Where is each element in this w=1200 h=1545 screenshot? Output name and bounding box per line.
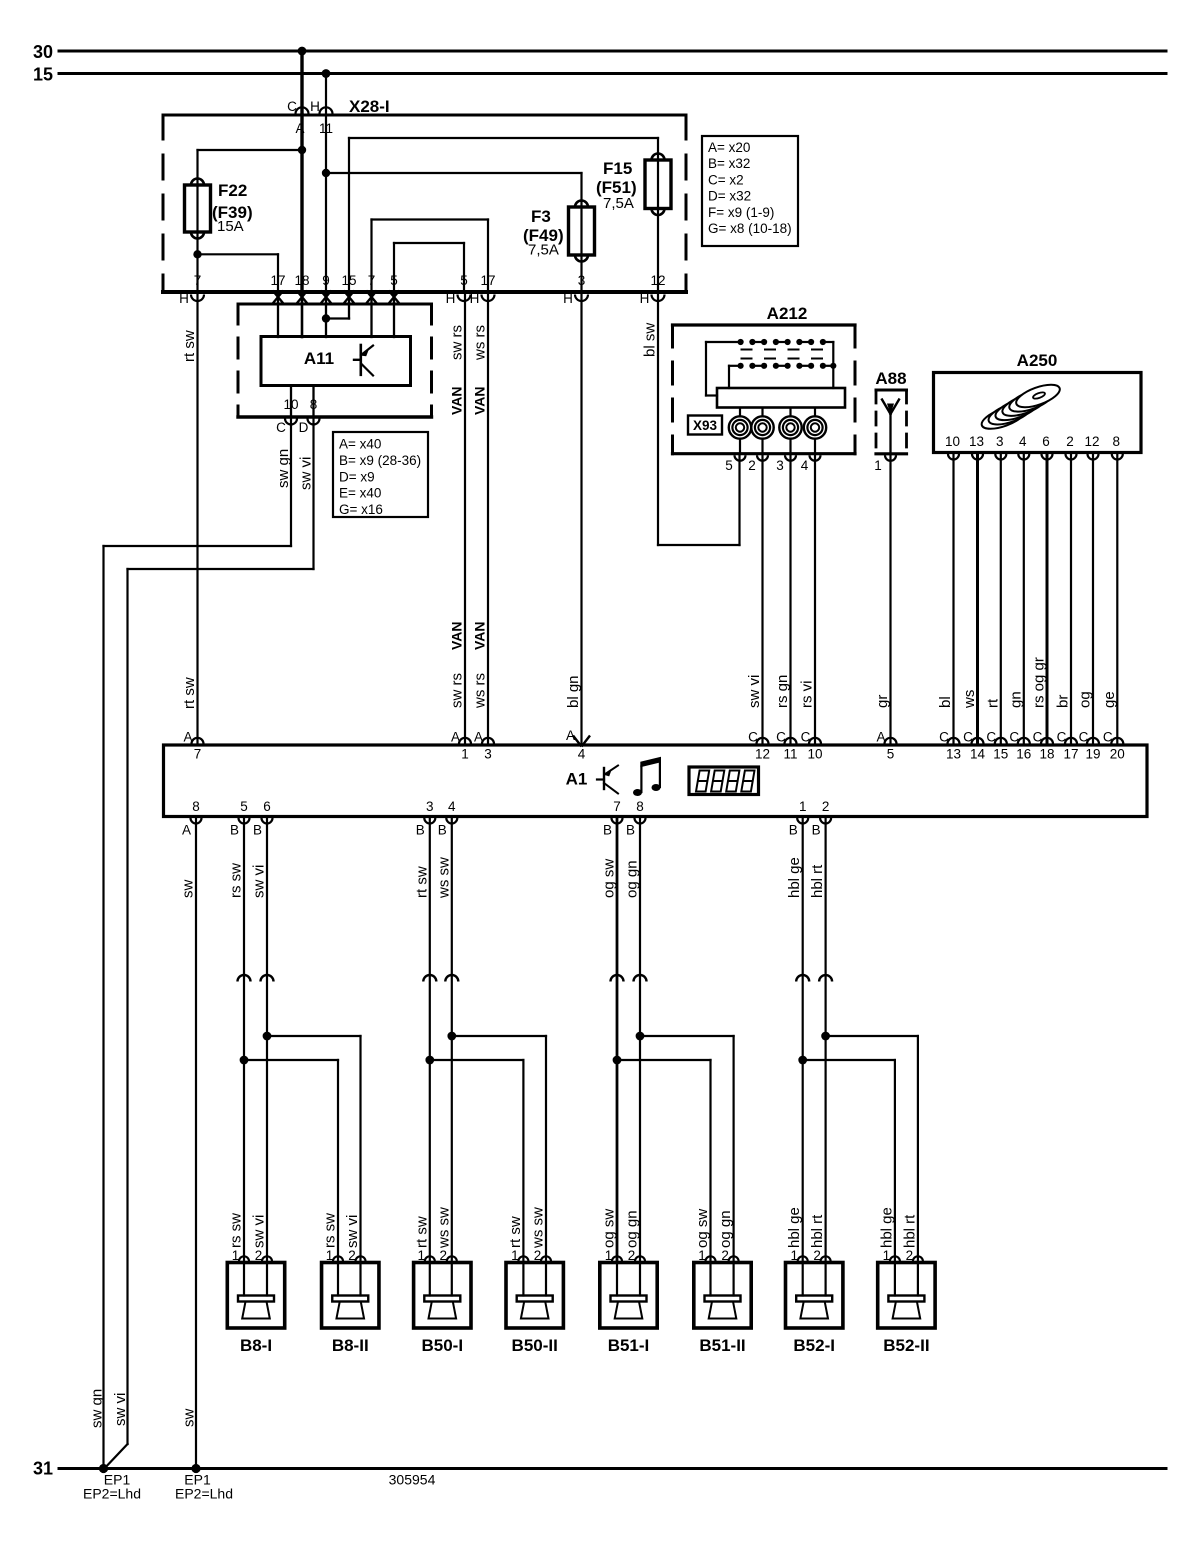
- svg-text:rt sw: rt sw: [181, 677, 198, 709]
- svg-text:8: 8: [1113, 434, 1121, 449]
- svg-text:sw vi: sw vi: [112, 1393, 129, 1426]
- svg-text:11: 11: [783, 747, 797, 762]
- svg-text:hbl rt: hbl rt: [901, 1214, 918, 1248]
- svg-text:5: 5: [887, 747, 895, 762]
- svg-text:4: 4: [578, 747, 586, 762]
- svg-text:15: 15: [33, 65, 53, 85]
- svg-text:gn: gn: [1008, 691, 1025, 708]
- svg-text:VAN: VAN: [472, 386, 488, 415]
- display symbol in A1: [689, 767, 759, 795]
- svg-text:C: C: [748, 730, 758, 745]
- svg-text:20: 20: [1110, 747, 1125, 762]
- wire branch rt sw to B50-II pin1: [430, 1059, 524, 1061]
- wire pin 15 to F15: [349, 137, 658, 139]
- svg-text:G= x8 (10-18): G= x8 (10-18): [708, 221, 792, 236]
- svg-text:17: 17: [480, 273, 495, 288]
- svg-text:EP2=Lhd: EP2=Lhd: [83, 1486, 141, 1502]
- svg-text:ws sw: ws sw: [435, 857, 452, 899]
- A212 internal wire right: [832, 342, 834, 388]
- svg-text:4: 4: [1019, 434, 1027, 449]
- harness pass symbol og sw: [611, 975, 624, 982]
- svg-text:2: 2: [906, 1248, 914, 1263]
- svg-text:A250: A250: [1017, 351, 1058, 370]
- svg-text:og sw: og sw: [601, 859, 618, 898]
- svg-text:15A: 15A: [217, 218, 244, 235]
- pin D connector at A11 bottom: [308, 419, 320, 425]
- node F22 branch: [193, 250, 201, 258]
- radio unit A11 inner box: [261, 337, 411, 386]
- svg-text:1: 1: [326, 1248, 334, 1263]
- wire F22 feed: [198, 149, 303, 151]
- node branch sw vi: [263, 1032, 272, 1041]
- music note symbol in A1: [633, 757, 661, 796]
- harness pass symbol og gn: [634, 975, 647, 982]
- wire bl sw X28-I pin12 to A212 pin5: [657, 292, 659, 545]
- svg-text:sw rs: sw rs: [449, 325, 466, 360]
- node branch rt sw: [425, 1056, 434, 1065]
- svg-text:C: C: [1009, 730, 1019, 745]
- svg-text:15: 15: [341, 273, 356, 288]
- svg-text:2: 2: [721, 1248, 729, 1263]
- svg-text:14: 14: [970, 747, 986, 762]
- svg-text:6: 6: [263, 799, 271, 814]
- svg-text:30: 30: [33, 42, 53, 62]
- wire bl gn X28-I pin3 to A1 pin4: [580, 292, 582, 744]
- pin 18 crossing symbol: [297, 291, 306, 302]
- wire rs sw A1 to B8-I pin1: [243, 818, 245, 1263]
- svg-text:rs sw: rs sw: [228, 863, 245, 898]
- svg-text:rs sw: rs sw: [228, 1213, 245, 1248]
- svg-text:X28-I: X28-I: [349, 97, 390, 116]
- A88 pin 1 connector: [885, 455, 896, 461]
- wire bracket pin 7 to pin 17 (inside X28-I): [372, 218, 489, 220]
- svg-text:B52-I: B52-I: [793, 1336, 835, 1355]
- wire bl A250 pin10 to A1: [952, 454, 954, 745]
- CD player box A250: [934, 373, 1142, 453]
- svg-text:9: 9: [322, 273, 330, 288]
- svg-text:4: 4: [448, 799, 456, 814]
- pin 15 crossing symbol: [344, 291, 353, 302]
- wire ws A250 pin13 to A1: [976, 454, 979, 745]
- bus 30 wire: [59, 50, 1166, 53]
- harness pass symbol rs sw: [238, 975, 251, 982]
- svg-text:B: B: [626, 823, 635, 838]
- node pin9/pin15 junction: [322, 314, 330, 322]
- A212 internal wire left row1: [705, 342, 707, 396]
- wire X28-I pin 17 to A11: [277, 292, 279, 337]
- svg-text:3: 3: [426, 799, 434, 814]
- svg-text:sw vi: sw vi: [746, 675, 763, 708]
- svg-text:10: 10: [945, 434, 960, 449]
- svg-text:12: 12: [1084, 434, 1099, 449]
- wire og sw A1 to B51-I pin1: [616, 818, 619, 1263]
- wire branch og gn to B51-II pin2: [640, 1035, 734, 1037]
- wire branch og sw to B51-II pin1: [617, 1059, 711, 1061]
- wire F3 to pin 3: [580, 255, 582, 292]
- svg-text:C: C: [986, 730, 996, 745]
- pin 5 connector H at X28-I bottom: [458, 295, 471, 302]
- harness pass symbol sw vi: [261, 975, 274, 982]
- wire branch sw vi to B8-II pin2: [267, 1035, 361, 1037]
- svg-text:C: C: [1103, 730, 1113, 745]
- wire X28-I pin 7 to A11: [370, 292, 372, 337]
- wire sw gn from A11 pin 10 to EP1: [290, 417, 292, 546]
- pin 3 connector H at X28-I bottom: [575, 295, 588, 302]
- svg-text:10: 10: [283, 397, 298, 412]
- wire gr A88 pin1 to A1 pin5: [889, 456, 891, 745]
- svg-text:hbl ge: hbl ge: [786, 1207, 803, 1248]
- node on bus 15: [322, 69, 331, 78]
- svg-text:hbl ge: hbl ge: [878, 1207, 895, 1248]
- svg-text:C: C: [1033, 730, 1043, 745]
- svg-text:A212: A212: [767, 304, 808, 323]
- wire og A250 pin12 to A1: [1092, 454, 1094, 745]
- svg-text:A88: A88: [875, 369, 906, 388]
- svg-text:18: 18: [294, 273, 309, 288]
- svg-text:bl sw: bl sw: [642, 323, 659, 357]
- svg-text:3: 3: [776, 458, 784, 473]
- svg-text:A: A: [474, 730, 483, 745]
- svg-text:rt sw: rt sw: [181, 330, 198, 362]
- svg-text:2: 2: [813, 1248, 821, 1263]
- svg-text:2: 2: [440, 1248, 448, 1263]
- connector X93 label box: [688, 416, 722, 435]
- svg-text:A: A: [182, 823, 191, 838]
- A11 pin 10 wire: [290, 386, 292, 418]
- svg-text:ws: ws: [961, 690, 978, 709]
- wire rt sw X28-I pin7 to A1 pin7: [196, 292, 198, 745]
- A1 bottom pin connectors: [182, 799, 202, 838]
- svg-text:13: 13: [946, 747, 961, 762]
- wire gn A250 pin4 to A1: [1023, 454, 1025, 745]
- svg-text:A= x20: A= x20: [708, 140, 750, 155]
- pin 17 crossing symbol: [273, 291, 282, 302]
- wire sw vi from A11 pin 8 to EP1: [312, 417, 314, 569]
- svg-text:rs vi: rs vi: [799, 681, 816, 709]
- fuse F3 (F49) 7,5A: [580, 207, 582, 255]
- wire hbl ge A1 to B52-I pin1: [802, 818, 804, 1263]
- wire X28-I pin 9 to A11: [325, 292, 327, 337]
- svg-text:15: 15: [993, 747, 1008, 762]
- pin 12 connector H at X28-I bottom: [652, 295, 665, 302]
- svg-text:B: B: [789, 823, 798, 838]
- svg-text:hbl ge: hbl ge: [786, 857, 803, 898]
- svg-text:VAN: VAN: [449, 386, 465, 415]
- wire rs og gr A250 pin6 to A1: [1046, 454, 1049, 745]
- wire ws sw A1 to B50-I pin2: [451, 818, 453, 1263]
- svg-text:2: 2: [255, 1248, 263, 1263]
- wire branch hbl ge to B52-II pin1: [803, 1059, 895, 1061]
- svg-text:1: 1: [605, 1248, 613, 1263]
- svg-text:6: 6: [1042, 434, 1050, 449]
- svg-text:A= x40: A= x40: [339, 437, 381, 452]
- wire sw vi A1 to B8-I pin2: [266, 818, 268, 1263]
- svg-text:1: 1: [883, 1248, 891, 1263]
- svg-text:5: 5: [725, 458, 733, 473]
- svg-text:sw vi: sw vi: [344, 1215, 361, 1248]
- svg-text:2: 2: [534, 1248, 542, 1263]
- node branch rs sw: [240, 1056, 249, 1065]
- svg-text:sw gn: sw gn: [89, 1389, 106, 1428]
- loudspeaker B51-I: [600, 1256, 657, 1328]
- svg-text:8: 8: [192, 799, 200, 814]
- bus 31 wire: [59, 1467, 1166, 1470]
- antenna box A88 (dashed): [876, 390, 907, 454]
- svg-text:7: 7: [194, 273, 202, 288]
- legend box connector key: [702, 136, 798, 246]
- svg-text:F3: F3: [531, 207, 551, 226]
- svg-text:F15: F15: [603, 159, 632, 178]
- svg-text:E= x40: E= x40: [339, 486, 381, 501]
- svg-text:B= x32: B= x32: [708, 156, 750, 171]
- node branch og gn: [636, 1032, 645, 1041]
- svg-text:sw vi: sw vi: [251, 865, 268, 898]
- transistor symbol in A1: [597, 766, 618, 794]
- svg-text:C= x2: C= x2: [708, 172, 744, 187]
- wire sw vi A212 pin2 to A1 pin12: [761, 456, 763, 745]
- harness pass symbol rt sw: [423, 975, 436, 982]
- svg-text:1: 1: [790, 1248, 798, 1263]
- svg-text:C: C: [776, 730, 786, 745]
- wire branch hbl rt to B52-II pin2: [826, 1035, 918, 1037]
- svg-text:C: C: [287, 99, 297, 114]
- svg-text:A: A: [451, 730, 460, 745]
- svg-text:D: D: [299, 420, 309, 435]
- ground node EP1 left: [99, 1464, 108, 1473]
- svg-text:H: H: [446, 291, 456, 306]
- loudspeaker B51-II: [694, 1256, 751, 1328]
- svg-text:ge: ge: [1101, 691, 1118, 708]
- A1 pin 4 arrow connector: [573, 736, 582, 747]
- svg-text:2: 2: [628, 1248, 636, 1263]
- svg-text:sw: sw: [181, 1409, 198, 1428]
- CD stack icon: [979, 380, 1063, 433]
- wire og gn A1 to B51-I pin2: [639, 818, 641, 1263]
- svg-text:X93: X93: [693, 418, 718, 433]
- svg-text:sw vi: sw vi: [298, 457, 315, 490]
- node branch ws sw: [447, 1032, 456, 1041]
- node branch hbl ge: [798, 1056, 807, 1065]
- loudspeaker B50-I: [414, 1256, 471, 1328]
- svg-text:1: 1: [232, 1248, 240, 1263]
- svg-text:rt sw: rt sw: [413, 1216, 430, 1248]
- antenna symbol: [882, 400, 899, 454]
- svg-text:rs og gr: rs og gr: [1031, 657, 1048, 708]
- A1 top pin connectors: [183, 730, 203, 762]
- svg-text:rs sw: rs sw: [322, 1213, 339, 1248]
- CD changer box A212 (dashed): [673, 325, 856, 454]
- A212 output jacks: [729, 408, 751, 454]
- wire F22 branch to pin 17: [198, 253, 279, 255]
- svg-text:8: 8: [636, 799, 644, 814]
- svg-text:B: B: [812, 823, 821, 838]
- svg-text:H: H: [563, 291, 573, 306]
- svg-text:gr: gr: [874, 695, 891, 708]
- svg-text:A: A: [183, 730, 192, 745]
- svg-text:B: B: [230, 823, 239, 838]
- wire sw rs VAN X28-I pin5 to A1 pin1: [464, 292, 466, 745]
- harness pass symbol hbl rt: [819, 975, 832, 981]
- svg-text:og gn: og gn: [717, 1210, 734, 1248]
- wire F22 to pin 7: [196, 232, 198, 292]
- svg-text:1: 1: [511, 1248, 519, 1263]
- svg-text:31: 31: [33, 1459, 53, 1479]
- svg-text:C: C: [963, 730, 973, 745]
- svg-text:EP2=Lhd: EP2=Lhd: [175, 1486, 233, 1502]
- svg-text:VAN: VAN: [449, 621, 465, 650]
- svg-text:17: 17: [1063, 747, 1078, 762]
- svg-text:og: og: [1077, 691, 1094, 708]
- svg-text:ws sw: ws sw: [435, 1207, 452, 1249]
- wire rs vi A212 pin4 to A1 pin10: [814, 456, 816, 745]
- svg-text:B51-I: B51-I: [608, 1336, 650, 1355]
- svg-text:A: A: [566, 728, 575, 743]
- wire rt sw A1 to B50-I pin1: [429, 818, 431, 1263]
- svg-text:bl: bl: [937, 696, 954, 708]
- legend box connector key A11: [333, 432, 428, 517]
- loudspeaker B8-II: [322, 1256, 379, 1328]
- svg-text:5: 5: [390, 273, 398, 288]
- wire X28-I pin 5 to A11: [393, 292, 395, 337]
- svg-text:16: 16: [1016, 747, 1031, 762]
- A212 switch row 1: [706, 339, 833, 350]
- svg-text:B50-I: B50-I: [422, 1336, 464, 1355]
- A212 internal wire left row2: [728, 366, 730, 388]
- wire rs gn A212 pin3 to A1 pin11: [789, 456, 791, 745]
- svg-text:B50-II: B50-II: [512, 1336, 558, 1355]
- svg-text:C: C: [801, 730, 811, 745]
- svg-text:hbl rt: hbl rt: [809, 864, 826, 898]
- svg-text:H: H: [179, 291, 189, 306]
- pin 9 crossing symbol: [321, 291, 330, 302]
- wire branch ws sw to B50-II pin2: [452, 1035, 546, 1037]
- svg-text:sw vi: sw vi: [251, 1215, 268, 1248]
- svg-text:br: br: [1055, 695, 1072, 708]
- svg-text:7: 7: [613, 799, 621, 814]
- loudspeaker B52-II: [878, 1256, 935, 1328]
- node branch og sw: [613, 1056, 622, 1065]
- svg-text:H: H: [640, 291, 650, 306]
- svg-text:19: 19: [1085, 747, 1100, 762]
- wire X28-I pin 15 jog: [348, 292, 350, 319]
- wire sw A1 pin8 to EP1: [195, 818, 197, 1469]
- svg-text:C: C: [1079, 730, 1089, 745]
- A11 pin 8 wire: [312, 386, 314, 418]
- wire ws rs VAN X28-I pin17 to A1 pin3: [487, 292, 489, 745]
- svg-text:sw rs: sw rs: [449, 673, 466, 708]
- pin H connector at X28-I top: [320, 107, 333, 113]
- svg-text:sw gn: sw gn: [275, 449, 292, 488]
- svg-text:2: 2: [1066, 434, 1074, 449]
- svg-text:B: B: [438, 823, 447, 838]
- svg-text:rt: rt: [985, 698, 1002, 708]
- transistor symbol in A11: [354, 345, 373, 376]
- loudspeaker B8-I: [227, 1256, 284, 1328]
- svg-text:sw: sw: [180, 880, 197, 899]
- svg-text:C: C: [939, 730, 949, 745]
- ground node EP1 right: [191, 1464, 200, 1473]
- svg-text:F22: F22: [218, 181, 247, 200]
- svg-text:3: 3: [578, 273, 586, 288]
- bus 15 wire: [59, 72, 1166, 75]
- pin 7 crossing symbol: [367, 291, 376, 302]
- A212 bottom pin connectors: [735, 455, 746, 461]
- fuse F22 (F39) 15A: [196, 185, 198, 232]
- loudspeaker B52-I: [786, 1256, 843, 1328]
- svg-text:H: H: [470, 291, 480, 306]
- svg-text:1: 1: [418, 1248, 426, 1263]
- node branch hbl rt: [821, 1032, 830, 1041]
- svg-text:12: 12: [755, 747, 770, 762]
- svg-text:10: 10: [807, 747, 822, 762]
- pin C connector at X28-I top: [296, 107, 309, 113]
- wire ge A250 pin8 to A1: [1116, 454, 1118, 745]
- svg-text:7: 7: [368, 273, 376, 288]
- svg-text:rt sw: rt sw: [413, 866, 430, 898]
- svg-text:ws rs: ws rs: [472, 325, 489, 361]
- svg-text:3: 3: [996, 434, 1004, 449]
- A250 bottom pin connectors: [948, 454, 959, 460]
- svg-text:B: B: [603, 823, 612, 838]
- svg-text:B: B: [253, 823, 262, 838]
- wire pin A to pin 18 (inside X28-I): [300, 115, 303, 292]
- node F22 feed on pin-A wire: [298, 146, 306, 154]
- svg-text:5: 5: [240, 799, 248, 814]
- pin 7 connector H at X28-I bottom: [191, 295, 204, 302]
- pin C connector at A11 bottom: [285, 419, 297, 425]
- svg-text:12: 12: [650, 273, 665, 288]
- svg-text:og gn: og gn: [624, 1210, 641, 1248]
- svg-text:13: 13: [969, 434, 984, 449]
- wire bracket pin 5 to pin 5 (inside X28-I): [394, 242, 464, 244]
- fuse F15 (F51) 7,5A: [657, 160, 659, 209]
- wire br A250 pin2 to A1: [1070, 454, 1072, 745]
- svg-text:1: 1: [874, 458, 882, 473]
- svg-text:1: 1: [461, 747, 469, 762]
- svg-text:C: C: [276, 420, 286, 435]
- harness pass symbol ws sw: [445, 975, 458, 982]
- svg-text:F= x9 (1-9): F= x9 (1-9): [708, 205, 774, 220]
- wire hbl rt A1 to B52-I pin2: [824, 818, 826, 1263]
- svg-text:D= x32: D= x32: [708, 189, 751, 204]
- svg-text:B: B: [416, 823, 425, 838]
- harness pass symbol hbl ge: [796, 975, 809, 982]
- svg-text:hbl rt: hbl rt: [809, 1214, 826, 1248]
- control unit box A11 (dashed): [238, 304, 432, 417]
- svg-text:ws rs: ws rs: [472, 673, 489, 709]
- pin 5 crossing symbol: [389, 291, 398, 302]
- loudspeaker B50-II: [506, 1256, 563, 1328]
- A212 switch row 2: [729, 359, 836, 369]
- svg-text:G= x16: G= x16: [339, 502, 383, 517]
- svg-text:B8-II: B8-II: [332, 1336, 369, 1355]
- svg-text:2: 2: [348, 1248, 356, 1263]
- svg-text:bl gn: bl gn: [565, 675, 582, 708]
- svg-text:305954: 305954: [389, 1472, 436, 1488]
- wire rt A250 pin3 to A1: [1000, 454, 1002, 745]
- svg-text:8: 8: [310, 397, 318, 412]
- wire F3 feed: [326, 172, 582, 174]
- svg-text:B52-II: B52-II: [883, 1336, 929, 1355]
- svg-text:17: 17: [270, 273, 285, 288]
- wire bus15 to X28-I pin 11: [325, 74, 327, 114]
- svg-text:og sw: og sw: [601, 1209, 618, 1248]
- svg-text:B= x9 (28-36): B= x9 (28-36): [339, 453, 421, 468]
- svg-text:3: 3: [484, 747, 492, 762]
- svg-text:rs gn: rs gn: [774, 675, 791, 708]
- wire pin 11 to pin 9 (inside X28-I): [325, 115, 327, 292]
- svg-text:rt sw: rt sw: [507, 1216, 524, 1248]
